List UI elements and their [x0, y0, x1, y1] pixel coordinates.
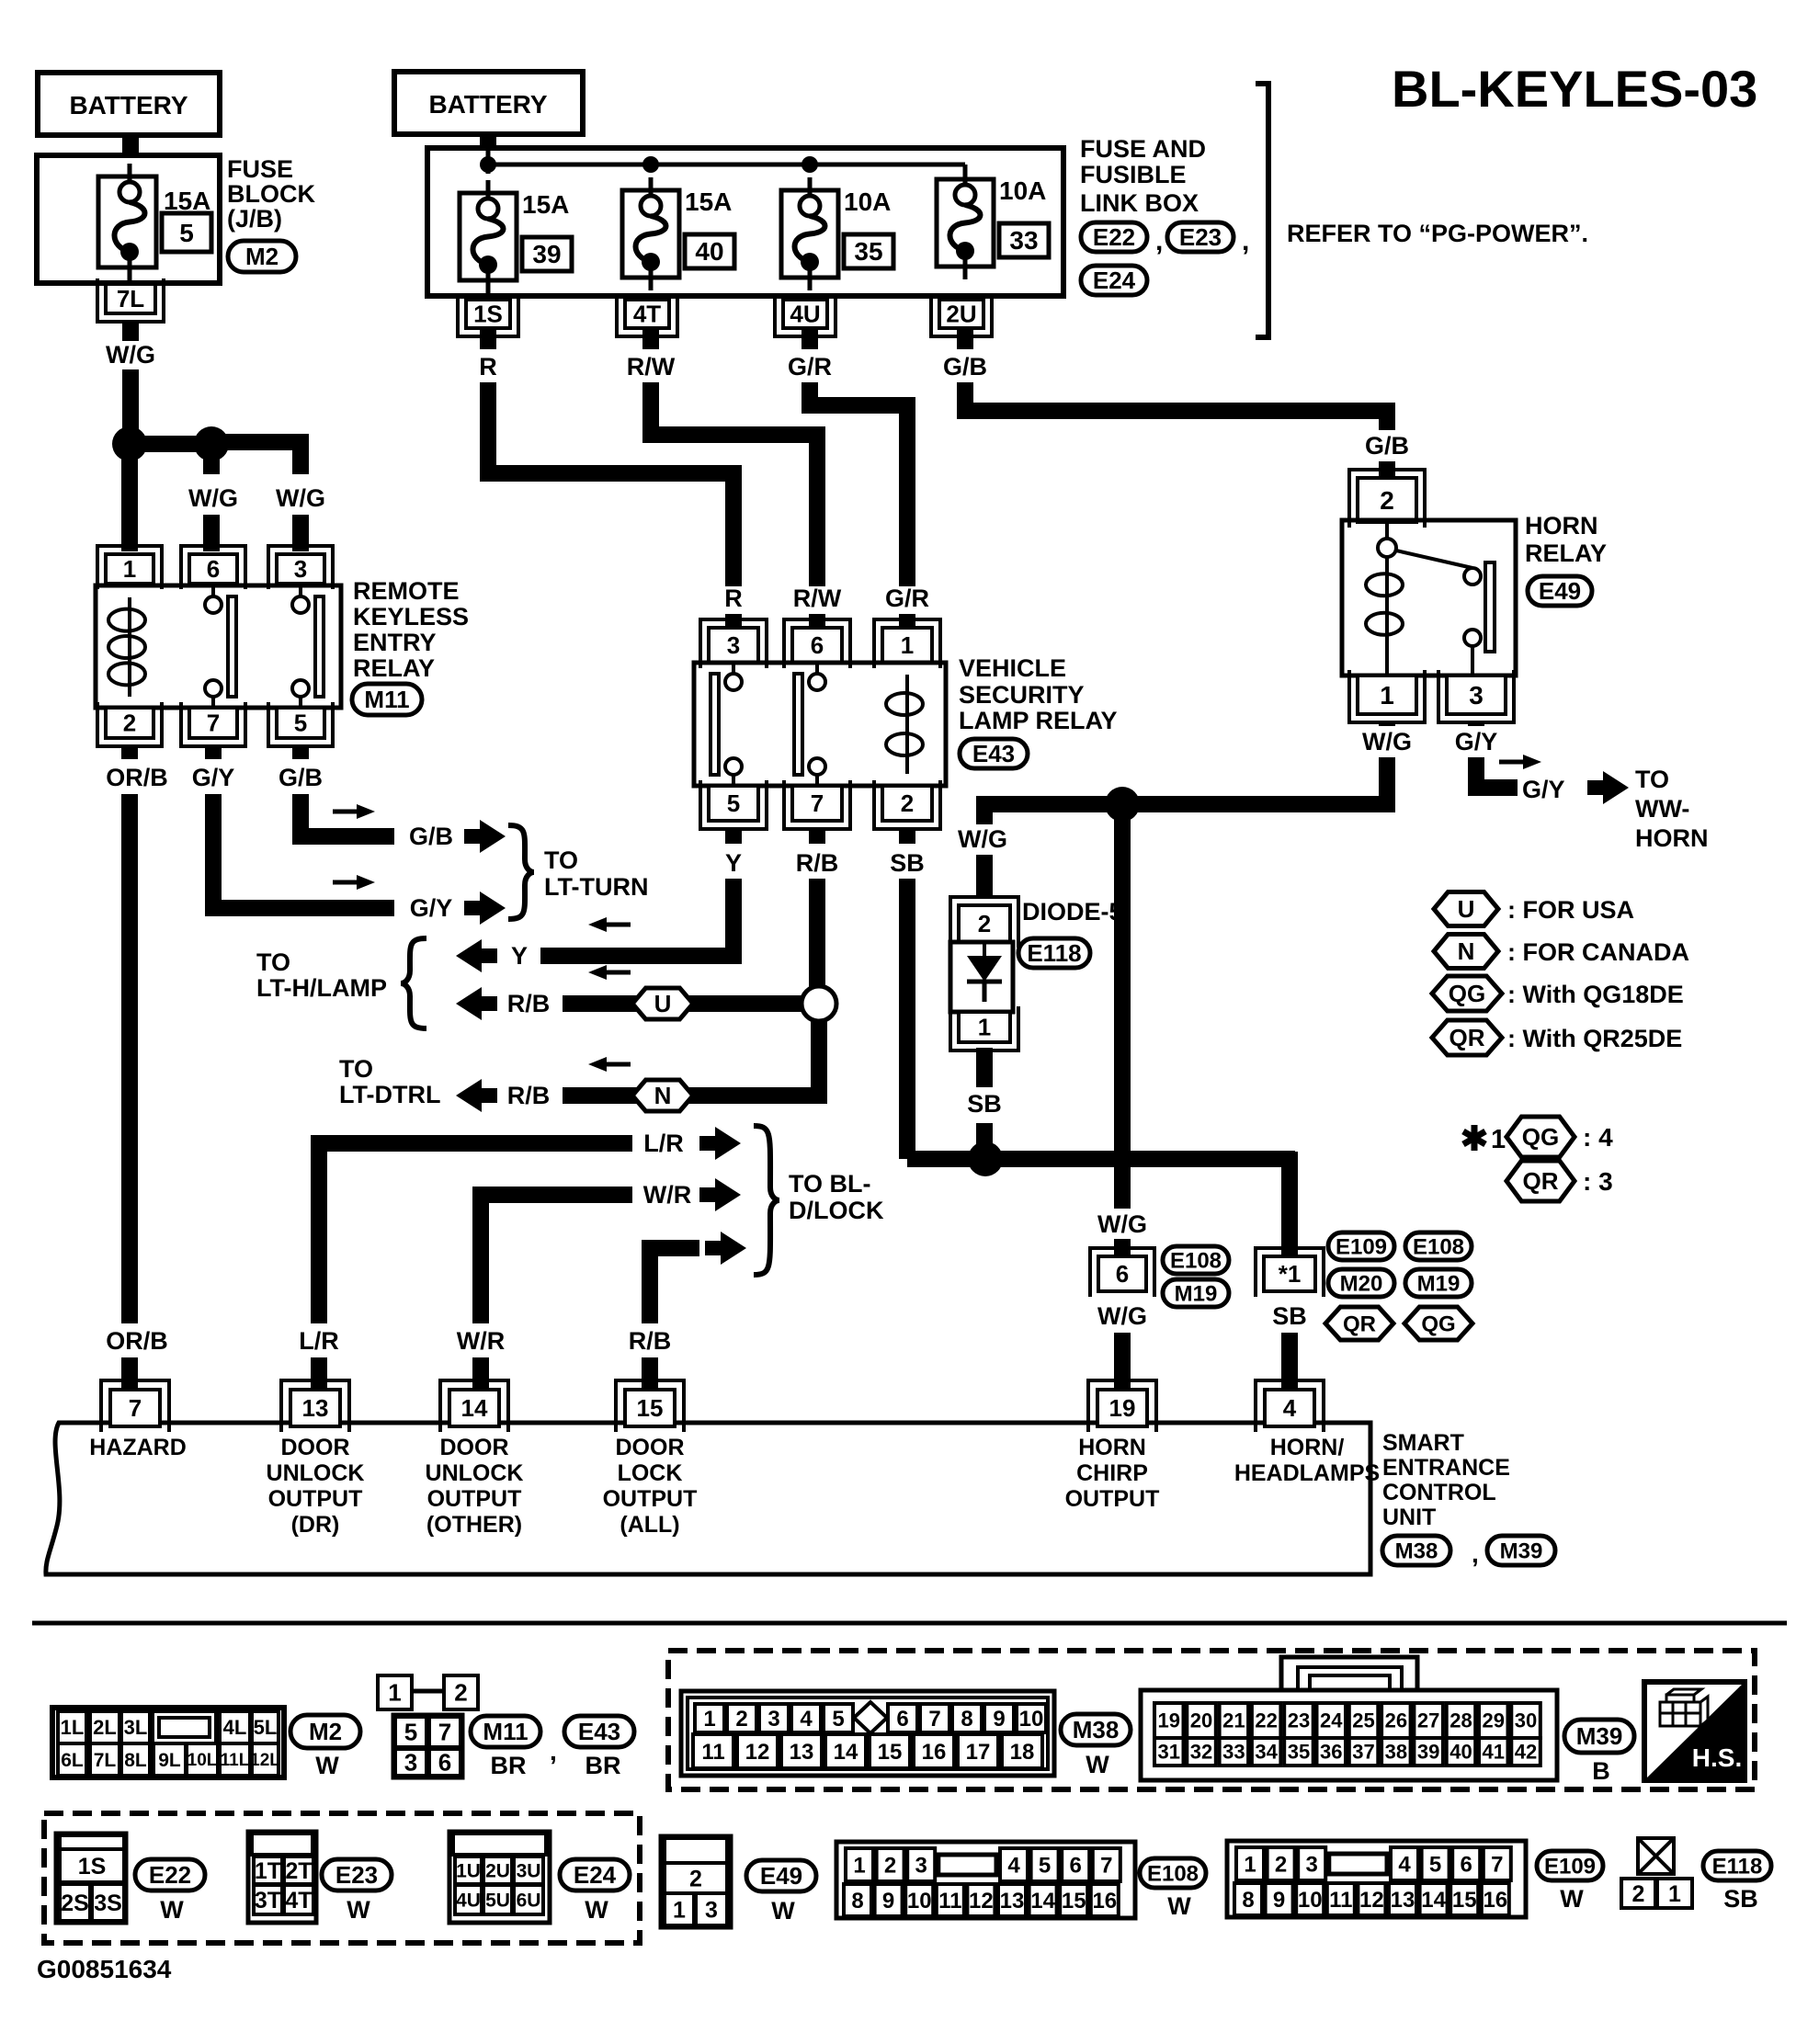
svg-text:M11: M11 [483, 1718, 528, 1745]
connector ref M38 [1382, 1536, 1450, 1565]
svg-text:2: 2 [978, 910, 991, 937]
hex N legend [1434, 935, 1498, 969]
wire R/W run to E43 pin 6 [651, 382, 817, 586]
connector ref E49 bottom [746, 1860, 816, 1891]
svg-text:M39: M39 [1500, 1539, 1543, 1563]
small arrow G/Y [333, 880, 362, 885]
svg-text:1: 1 [1491, 1125, 1506, 1154]
svg-text:*1: *1 [1279, 1260, 1302, 1288]
connector ref E109 mid [1328, 1232, 1394, 1260]
wire OR/B long run [121, 794, 138, 1323]
svg-text:3U: 3U [517, 1860, 541, 1881]
svg-text:RELAY: RELAY [353, 654, 435, 682]
wire W/G to junction [122, 369, 139, 444]
bus junction dot 3 [801, 156, 818, 173]
connector 14 [449, 1390, 499, 1426]
svg-text:31: 31 [1158, 1741, 1180, 1764]
wire W/G horn down [984, 757, 1387, 824]
svg-text:11: 11 [701, 1740, 724, 1765]
svg-text:2: 2 [735, 1707, 747, 1732]
svg-text:1: 1 [123, 555, 136, 583]
svg-text:W: W [160, 1896, 184, 1924]
label *1 [1463, 1125, 1485, 1151]
connector ref M19 mid2 [1405, 1269, 1472, 1297]
connector ref E108 mid2 [1405, 1232, 1472, 1260]
svg-text:U: U [1458, 895, 1475, 923]
svg-text:OUTPUT: OUTPUT [268, 1486, 363, 1512]
svg-text:W: W [771, 1897, 795, 1925]
svg-text:3: 3 [404, 1749, 417, 1777]
svg-text:6U: 6U [517, 1890, 541, 1911]
connector ref E23 bottom [322, 1859, 392, 1891]
hex QR mid [1325, 1307, 1393, 1340]
connector face M39 tab [1281, 1657, 1417, 1697]
svg-text:9: 9 [1273, 1888, 1285, 1913]
connector face M2 [52, 1708, 284, 1777]
svg-text:5U: 5U [485, 1890, 510, 1911]
connector 6 [1098, 1256, 1146, 1291]
connector face E118 [1638, 1838, 1674, 1874]
svg-text:7: 7 [811, 789, 824, 817]
fuse 10A #33 [937, 179, 994, 267]
svg-text:16: 16 [1092, 1889, 1117, 1913]
svg-text:E118: E118 [1712, 1854, 1763, 1879]
svg-text:DOOR: DOOR [281, 1435, 350, 1460]
small arrow N [601, 1062, 631, 1067]
connector 19 [1097, 1390, 1147, 1426]
wire G/B to horn pin 2 [1379, 461, 1395, 478]
svg-text:9L: 9L [158, 1750, 181, 1771]
svg-text:10: 10 [1298, 1888, 1323, 1913]
hex U legend [1434, 892, 1498, 926]
svg-text:W: W [315, 1752, 339, 1779]
connector ref M2 bottom [290, 1715, 360, 1748]
relay M11 pin 5 [277, 708, 324, 738]
svg-text:10: 10 [907, 1889, 932, 1913]
svg-text:2: 2 [884, 1853, 896, 1878]
svg-text:R/B: R/B [629, 1327, 672, 1355]
svg-text:7: 7 [129, 1394, 142, 1422]
separator line [32, 1621, 1787, 1626]
relay M11 switch 6-7 [211, 585, 215, 596]
svg-text:VEHICLE: VEHICLE [959, 654, 1066, 682]
svg-text:FUSIBLE: FUSIBLE [1080, 161, 1187, 188]
connector face M11/E43 grid [393, 1715, 462, 1777]
svg-text:4: 4 [1007, 1853, 1020, 1878]
wire W/G junction A to M11 pin 1 [121, 444, 138, 551]
svg-text:2: 2 [1380, 486, 1394, 515]
svg-text:RELAY: RELAY [1525, 539, 1607, 567]
hex QG note [1506, 1117, 1575, 1157]
fuse 10A #35 [781, 190, 838, 278]
svg-text:HAZARD: HAZARD [89, 1435, 187, 1460]
svg-text:E23: E23 [335, 1861, 378, 1889]
svg-text:12: 12 [1359, 1888, 1384, 1913]
wire W/G to diode [976, 855, 993, 898]
svg-text:7: 7 [1100, 1853, 1112, 1878]
svg-text:SECURITY: SECURITY [959, 681, 1085, 709]
svg-text:G00851634: G00851634 [37, 1955, 172, 1983]
svg-text:G/B: G/B [279, 764, 323, 791]
svg-text:WW-: WW- [1635, 795, 1689, 823]
diode symbol [983, 942, 986, 956]
svg-text:M11: M11 [364, 686, 409, 713]
relay E43 pin 5 [709, 786, 758, 821]
svg-text:5: 5 [179, 219, 194, 247]
connector ref M19 mid [1163, 1279, 1229, 1307]
svg-text:(OTHER): (OTHER) [426, 1512, 522, 1538]
svg-text:14: 14 [834, 1740, 858, 1765]
svg-text:OR/B: OR/B [106, 1327, 168, 1355]
svg-text:TO: TO [256, 948, 290, 976]
wire W/G to conn 6 [1114, 1239, 1131, 1256]
svg-text:ENTRANCE: ENTRANCE [1382, 1455, 1510, 1481]
svg-text:E24: E24 [1093, 267, 1136, 294]
wire diode SB stub [976, 1048, 993, 1087]
svg-text:QG: QG [1522, 1123, 1559, 1151]
wire W/R run [481, 1195, 632, 1323]
fuse 15A #39 [460, 193, 517, 280]
hex QR note [1506, 1161, 1575, 1201]
connector ref E23 top [1167, 222, 1234, 252]
svg-text:SB: SB [967, 1090, 1002, 1118]
svg-text:9: 9 [882, 1889, 894, 1913]
svg-text:G/Y: G/Y [1455, 728, 1498, 755]
svg-text:(DR): (DR) [291, 1512, 340, 1538]
bus junction dot 2 [642, 156, 659, 173]
svg-text:15: 15 [637, 1394, 664, 1422]
wire G/R stub [801, 328, 818, 349]
relay E43 pin 7 [792, 786, 842, 821]
svg-text:5: 5 [1039, 1853, 1051, 1878]
svg-text:W/G: W/G [188, 484, 238, 512]
connector face M11/E43 top pins [378, 1675, 412, 1709]
svg-text:19: 19 [1158, 1709, 1180, 1732]
fuse number box 40 [685, 234, 734, 268]
junction dot A [112, 426, 147, 461]
svg-text:E43: E43 [578, 1718, 620, 1745]
svg-text:REMOTE: REMOTE [353, 577, 460, 605]
connector 15 [625, 1390, 675, 1426]
svg-text:G/B: G/B [1365, 432, 1409, 460]
connector 2U [939, 300, 983, 328]
svg-text:W/R: W/R [643, 1181, 691, 1209]
big arrow G/Y out [464, 891, 506, 925]
svg-text:G/Y: G/Y [192, 764, 235, 791]
svg-text:2: 2 [123, 710, 136, 737]
svg-text:19: 19 [1109, 1394, 1136, 1422]
svg-text:5: 5 [294, 710, 307, 737]
wire battery2 to link box [480, 134, 496, 150]
wire SB diode to dot [976, 1123, 993, 1159]
svg-text:25: 25 [1352, 1709, 1374, 1732]
relay E43 switch 3-5 [732, 663, 735, 674]
svg-text:41: 41 [1483, 1741, 1505, 1764]
svg-text:3: 3 [705, 1897, 718, 1923]
wire SB *1 to conn 4 [1281, 1333, 1298, 1390]
svg-text:R/B: R/B [507, 1082, 551, 1109]
connector face M39 [1141, 1690, 1557, 1780]
hex QG legend [1432, 976, 1502, 1011]
svg-text:13: 13 [302, 1394, 329, 1422]
wire SB horizontal [907, 1151, 1295, 1167]
svg-text:23: 23 [1288, 1709, 1310, 1732]
svg-text:13: 13 [1391, 1888, 1415, 1913]
svg-text:E118: E118 [1027, 939, 1081, 967]
svg-text:3: 3 [1306, 1852, 1318, 1877]
connector ref M2 [228, 241, 296, 272]
svg-text:6: 6 [438, 1749, 451, 1777]
svg-text:N: N [1458, 937, 1475, 965]
svg-text:G/Y: G/Y [1522, 776, 1565, 803]
svg-text:FUSE: FUSE [227, 155, 293, 183]
svg-text:,: , [1472, 1539, 1479, 1568]
svg-text:Y: Y [725, 849, 742, 877]
wire SB stub [899, 827, 915, 844]
diode-5 body [950, 942, 1013, 1012]
small arrow U [601, 971, 631, 975]
svg-text:3L: 3L [124, 1716, 148, 1739]
svg-text:TO: TO [544, 846, 578, 874]
svg-text:40: 40 [695, 237, 723, 266]
svg-text:LINK BOX: LINK BOX [1080, 189, 1199, 217]
fuse 15A #40 [622, 190, 679, 278]
connector ref M38 bottom [1061, 1714, 1131, 1745]
svg-text:N: N [654, 1082, 672, 1109]
connector ref E108 mid [1163, 1246, 1229, 1274]
svg-text:LT-H/LAMP: LT-H/LAMP [256, 974, 387, 1002]
svg-text:DOOR: DOOR [440, 1435, 509, 1460]
svg-text:26: 26 [1385, 1709, 1407, 1732]
svg-text:UNLOCK: UNLOCK [267, 1460, 365, 1486]
svg-text:36: 36 [1320, 1741, 1342, 1764]
wire W/G conn6 to 19 [1114, 1333, 1131, 1390]
connector 7L [106, 284, 155, 313]
svg-text:1: 1 [978, 1014, 991, 1041]
svg-text:: With QG18DE: : With QG18DE [1507, 981, 1684, 1008]
relay M11 body [96, 585, 341, 708]
wire G/Y horn out [1476, 757, 1518, 788]
svg-text:M38: M38 [1073, 1716, 1120, 1743]
svg-text:5: 5 [832, 1707, 844, 1732]
svg-text:4U: 4U [790, 301, 820, 328]
wire R/B to conn 15 [642, 1357, 658, 1390]
svg-text:BL-KEYLES-03: BL-KEYLES-03 [1392, 60, 1757, 118]
fuse block J/B box M2 [37, 155, 220, 283]
connector face M38 [681, 1691, 1054, 1776]
wire OR/B stub [121, 746, 138, 759]
relay E49 pin 1 [1358, 676, 1416, 714]
svg-text:OUTPUT: OUTPUT [427, 1486, 522, 1512]
svg-text:6: 6 [896, 1707, 908, 1732]
relay E43 switch 6-7 [815, 663, 819, 674]
svg-text:: 3: : 3 [1583, 1167, 1613, 1196]
svg-text:38: 38 [1385, 1741, 1407, 1764]
svg-text:1: 1 [901, 631, 914, 659]
svg-text:1: 1 [1668, 1881, 1681, 1907]
hex QG mid [1404, 1307, 1472, 1340]
wire W/G to M11 pin 6 [203, 515, 220, 551]
connector face E22 [56, 1834, 126, 1923]
svg-text:1: 1 [853, 1853, 865, 1878]
svg-text:M39: M39 [1576, 1722, 1623, 1750]
relay E43 pin 1 [882, 628, 932, 663]
svg-text:1L: 1L [61, 1716, 85, 1739]
wire R run to E43 pin 3 [488, 382, 733, 586]
connector face E24 [449, 1832, 550, 1923]
svg-text:E24: E24 [574, 1861, 617, 1889]
relay E49 coil [1385, 556, 1389, 653]
connector ref E118 top [1018, 938, 1090, 968]
connector 4 [1265, 1390, 1314, 1426]
svg-text:16: 16 [1483, 1888, 1507, 1913]
svg-text:37: 37 [1352, 1741, 1374, 1764]
relay E49 switch link [1396, 551, 1472, 568]
connector face E108 [836, 1842, 1135, 1918]
svg-text:E108: E108 [1170, 1248, 1222, 1273]
relay M11 pin 7 [189, 708, 237, 738]
svg-text:2U: 2U [946, 301, 976, 328]
connector ref E24 bottom [560, 1859, 630, 1891]
fuse 15A #5 [98, 176, 156, 267]
svg-text:CONTROL: CONTROL [1382, 1480, 1496, 1505]
svg-text:LAMP RELAY: LAMP RELAY [959, 707, 1118, 734]
wire junction B to col C [211, 442, 301, 474]
svg-text:E108: E108 [1413, 1234, 1464, 1259]
svg-text:2: 2 [689, 1866, 702, 1891]
wire G/B stub [292, 746, 309, 759]
relay E49 pin 2 [1358, 478, 1416, 522]
battery B2 [394, 72, 583, 134]
connector ref M11 bottom [471, 1716, 540, 1747]
svg-text:HORN: HORN [1635, 824, 1709, 852]
svg-text:E109: E109 [1544, 1854, 1596, 1879]
svg-text:QG: QG [1449, 980, 1485, 1007]
svg-text:Y: Y [511, 942, 528, 970]
svg-text:16: 16 [922, 1740, 947, 1765]
battery B1 [38, 73, 220, 135]
dashed box E22 E23 E24 [44, 1813, 640, 1943]
svg-text:M38: M38 [1395, 1539, 1438, 1563]
svg-text:E22: E22 [1093, 223, 1135, 251]
svg-text:8: 8 [961, 1707, 972, 1732]
svg-text:REFER TO “PG-POWER”.: REFER TO “PG-POWER”. [1287, 220, 1588, 247]
svg-text:10A: 10A [999, 176, 1046, 205]
svg-text:W: W [1167, 1892, 1191, 1920]
svg-text:OUTPUT: OUTPUT [603, 1486, 698, 1512]
svg-text:33: 33 [1222, 1741, 1245, 1764]
svg-text:7: 7 [438, 1719, 451, 1746]
svg-text:7: 7 [207, 710, 220, 737]
svg-text:BATTERY: BATTERY [428, 90, 547, 119]
connector ref E108 bottom [1140, 1858, 1206, 1888]
wire R/B to circle [809, 879, 825, 987]
svg-text:11: 11 [938, 1889, 961, 1913]
svg-text:17: 17 [966, 1740, 991, 1765]
svg-text:6: 6 [1070, 1853, 1082, 1878]
svg-text:HORN: HORN [1078, 1435, 1146, 1460]
wire junction B down stub [203, 444, 220, 474]
svg-text:W/G: W/G [276, 484, 325, 512]
connector 4U [783, 300, 827, 328]
svg-text:B: B [1592, 1757, 1610, 1785]
big arrow R/B [705, 1232, 746, 1265]
wire R/B run [650, 1248, 699, 1323]
svg-text:39: 39 [1417, 1741, 1439, 1764]
svg-text:15A: 15A [164, 187, 210, 215]
svg-text:L/R: L/R [299, 1327, 339, 1355]
wire SB to *1 [1281, 1152, 1298, 1256]
diamond M38 [854, 1702, 887, 1733]
bracket LT-H/LAMP [401, 938, 426, 1028]
svg-text:W/G: W/G [1097, 1302, 1147, 1330]
svg-text:W: W [1086, 1751, 1109, 1778]
wire R/B stub [809, 827, 825, 844]
svg-text:W: W [585, 1896, 608, 1924]
svg-text:2: 2 [454, 1679, 467, 1707]
svg-text:L/R: L/R [643, 1130, 684, 1157]
svg-text:4T: 4T [633, 301, 661, 328]
svg-text:M2: M2 [309, 1718, 342, 1745]
wire R stub [480, 328, 496, 349]
svg-text:TO: TO [1635, 766, 1669, 793]
fuse number box 39 [522, 237, 572, 271]
svg-text:3: 3 [1469, 681, 1484, 710]
svg-text:3: 3 [915, 1853, 927, 1878]
wire R/W stub [642, 328, 659, 349]
wire G/Y stub horn [1468, 722, 1484, 726]
svg-text:G/R: G/R [788, 353, 832, 380]
svg-text:1: 1 [703, 1707, 715, 1732]
svg-text:E109: E109 [1336, 1234, 1387, 1259]
svg-text:3: 3 [767, 1707, 779, 1732]
big arrow to WW-HORN [1587, 771, 1629, 804]
svg-text:M2: M2 [245, 243, 279, 270]
big arrow N out [456, 1079, 497, 1112]
svg-text:DIODE-5: DIODE-5 [1022, 898, 1123, 925]
svg-text:15: 15 [1062, 1889, 1086, 1913]
big arrow W/R [699, 1178, 741, 1211]
junction dot B [194, 426, 229, 461]
connector face E23 [248, 1832, 316, 1923]
svg-text:BATTERY: BATTERY [69, 91, 188, 119]
svg-text:,: , [1155, 226, 1163, 256]
svg-text:11: 11 [1329, 1888, 1352, 1913]
svg-text:1: 1 [673, 1897, 686, 1923]
svg-text:W/G: W/G [1362, 728, 1412, 755]
wire Y run [540, 879, 733, 956]
svg-text:E49: E49 [1539, 577, 1581, 605]
relay M11 pin 1 [106, 554, 153, 584]
svg-text:15A: 15A [522, 190, 569, 219]
svg-text:1U: 1U [456, 1860, 481, 1881]
svg-text:3: 3 [727, 631, 740, 659]
svg-text:10L: 10L [188, 1751, 218, 1770]
svg-text:2S: 2S [61, 1891, 89, 1916]
svg-text:5: 5 [1429, 1852, 1441, 1877]
svg-text:LOCK: LOCK [618, 1460, 683, 1486]
wire W/G from 7L [122, 320, 139, 341]
svg-text:1: 1 [1244, 1852, 1256, 1877]
relay E49 switch [1464, 568, 1481, 585]
junction dot W/G [1105, 787, 1140, 822]
svg-text:14: 14 [1030, 1889, 1055, 1913]
small arrow G/B [333, 810, 362, 814]
svg-text:2: 2 [901, 789, 914, 817]
dashed box M38 M39 [668, 1651, 1755, 1789]
svg-text:W: W [1560, 1885, 1584, 1913]
connector ref E24 top [1081, 266, 1147, 295]
